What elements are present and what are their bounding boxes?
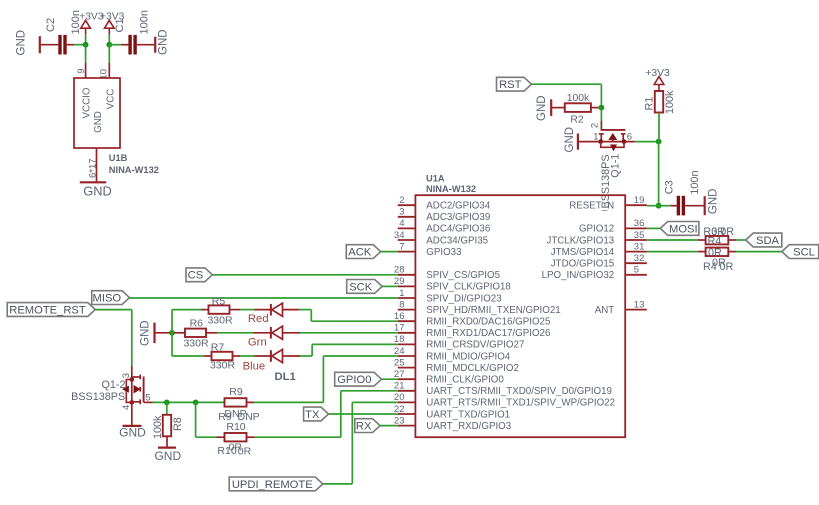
label U1A [426, 174, 445, 184]
svg-text:VCCIO: VCCIO [82, 87, 93, 118]
svg-text:ADC3/GPIO39: ADC3/GPIO39 [426, 212, 490, 223]
resistor R9 [218, 386, 259, 423]
wire [728, 239, 745, 241]
wire [283, 332, 398, 334]
pin 32 JTDO/GPIO15 [551, 253, 647, 270]
pin 21 UART_CTS/RMII_TXD0/SPIV_D0/GPIO19 [394, 381, 612, 398]
svg-text:JTMS/GPIO14: JTMS/GPIO14 [551, 247, 615, 258]
label Q1-2 [101, 379, 125, 391]
ground near DL1 [140, 320, 155, 346]
wire [41, 44, 59, 46]
led DL1 green [271, 326, 283, 339]
wire [685, 205, 704, 207]
pin 9 label [76, 69, 87, 74]
svg-text:RMII_CRSDV/GPIO27: RMII_CRSDV/GPIO27 [426, 340, 524, 351]
svg-text:C2: C2 [45, 18, 57, 32]
svg-text:Q1-1: Q1-1 [609, 154, 621, 178]
svg-text:C1: C1 [114, 18, 126, 32]
svg-text:JTDO/GPIO15: JTDO/GPIO15 [551, 259, 615, 270]
svg-text:32: 32 [634, 253, 645, 264]
wire [108, 34, 110, 45]
pin 16 RMII_RXD0/DAC16/GPIO25 [394, 311, 551, 328]
svg-text:R6: R6 [190, 317, 204, 329]
wire [206, 332, 271, 334]
wire [172, 355, 212, 357]
svg-text:5: 5 [634, 265, 639, 276]
pin 10 label [99, 69, 110, 80]
svg-text:RST: RST [499, 79, 522, 91]
ground below R8 [154, 448, 181, 464]
svg-text:UART_TXD/GPIO1: UART_TXD/GPIO1 [426, 409, 510, 420]
svg-text:4: 4 [399, 218, 404, 229]
svg-text:BSS138PS: BSS138PS [71, 391, 125, 403]
pin 22 UART_TXD/GPIO1 [394, 404, 510, 421]
label U1B [109, 153, 128, 163]
wire [85, 45, 87, 78]
resistor R8 [152, 415, 184, 439]
svg-text:GND: GND [564, 127, 576, 153]
svg-text:R7: R7 [211, 341, 225, 353]
svg-text:0R: 0R [720, 226, 734, 238]
pin 36 GPIO12 [579, 218, 647, 235]
wire [109, 44, 128, 46]
resistor R6 [183, 317, 209, 349]
wire [144, 401, 153, 403]
svg-text:SPIV_DI/GPIO23: SPIV_DI/GPIO23 [426, 293, 501, 304]
svg-text:R5: R5 [212, 296, 226, 308]
wire [166, 436, 168, 447]
svg-text:6: 6 [627, 131, 632, 142]
ground below Q1-2 [119, 425, 146, 439]
svg-text:1: 1 [593, 131, 598, 142]
svg-text:R10: R10 [226, 421, 245, 433]
net flag ACK [346, 245, 380, 259]
svg-text:GND: GND [140, 320, 152, 346]
ground near C1 [155, 29, 169, 55]
svg-text:330R: 330R [183, 337, 209, 349]
resistor R3 [703, 226, 734, 248]
svg-text:Grn: Grn [248, 337, 267, 349]
svg-text:25: 25 [394, 357, 405, 368]
net flag GPIO0 [335, 372, 382, 386]
wire [532, 84, 602, 107]
svg-text:Q1-2: Q1-2 [101, 379, 125, 391]
resistor R7 [210, 341, 236, 371]
resistor R4 [703, 247, 734, 273]
svg-text:+3V3: +3V3 [645, 68, 670, 79]
junction [164, 400, 170, 406]
wire [254, 356, 398, 402]
svg-text:RMII_RXD0/DAC16/GPIO25: RMII_RXD0/DAC16/GPIO25 [426, 317, 551, 328]
pin 25 RMII_MDCLK/GPIO2 [394, 357, 519, 374]
svg-text:100k: 100k [152, 415, 164, 439]
wire [635, 141, 658, 143]
svg-text:JTCLK/GPIO13: JTCLK/GPIO13 [546, 235, 614, 246]
resistor R10 [217, 421, 251, 458]
svg-text:GPIO33: GPIO33 [426, 247, 461, 258]
svg-text:GND: GND [93, 111, 104, 133]
svg-text:330R: 330R [210, 359, 236, 371]
svg-text:100k: 100k [664, 90, 676, 114]
pin 19 RESET_N [569, 195, 647, 212]
svg-text:MISO: MISO [93, 293, 122, 305]
svg-text:13: 13 [634, 299, 645, 310]
pin 7 GPIO33 [398, 241, 462, 258]
label BSS138PS (Q1-2) [71, 391, 125, 403]
svg-text:100n: 100n [139, 10, 151, 34]
ic U1A outline [415, 195, 625, 437]
pin 6*17 label [88, 158, 99, 178]
net flag SCK [347, 280, 383, 294]
svg-text:R4: R4 [708, 236, 722, 248]
svg-text:GND: GND [83, 183, 111, 198]
net flag MOSI [660, 222, 699, 236]
svg-text:R8: R8 [172, 417, 184, 431]
svg-text:100k: 100k [567, 93, 590, 104]
pin 8 SPIV_HD/RMII_TXEN/GPIO21 [398, 299, 561, 316]
supply +3V3 (R1) [645, 68, 670, 91]
svg-text:GND: GND [154, 449, 181, 463]
wire [172, 310, 209, 356]
svg-text:100n: 100n [689, 170, 701, 194]
wire [647, 239, 706, 241]
svg-text:35: 35 [634, 230, 645, 241]
svg-text:3: 3 [399, 207, 404, 218]
wire [67, 44, 86, 46]
led DL1 blue [271, 349, 283, 362]
pin 1 SPIV_DI/GPIO23 [398, 288, 502, 305]
ic U1B power block [74, 78, 120, 148]
label 100n of C2 [70, 10, 82, 34]
svg-text:DL1: DL1 [275, 371, 296, 383]
svg-text:R9: R9 [229, 386, 243, 398]
junction [169, 330, 175, 336]
svg-text:ADC2/GPIO34: ADC2/GPIO34 [426, 201, 491, 212]
wire [382, 378, 398, 380]
pin 20 UART_RTS/RMII_TXD1/SPIV_WP/GPIO22 [394, 392, 615, 409]
pin GND of U1B [96, 148, 98, 182]
transistor Q1-2 [121, 373, 151, 410]
wire [647, 251, 706, 253]
net flag SCL [782, 245, 819, 259]
wire [658, 113, 660, 206]
svg-text:SCK: SCK [349, 281, 373, 293]
junction [656, 139, 662, 145]
ground near C3 [705, 189, 720, 216]
svg-text:UART_RTS/RMII_TXD1/SPIV_WP/GPI: UART_RTS/RMII_TXD1/SPIV_WP/GPIO22 [426, 398, 615, 409]
wire [728, 251, 782, 253]
svg-text:9: 9 [76, 69, 87, 74]
net flag UPDI_REMOTE [229, 477, 323, 491]
svg-text:Red: Red [248, 313, 269, 325]
svg-text:GND: GND [536, 95, 548, 121]
svg-text:RX: RX [356, 421, 372, 433]
svg-text:VCC: VCC [106, 89, 117, 110]
svg-text:MOSI: MOSI [669, 223, 698, 235]
wire [247, 401, 255, 403]
wire [552, 107, 565, 109]
wire [283, 344, 398, 356]
svg-text:0R: 0R [238, 446, 252, 458]
net flag TX [304, 407, 329, 421]
wire [600, 108, 602, 131]
svg-text:36: 36 [634, 218, 645, 229]
wire [381, 251, 398, 253]
label Blue [243, 361, 266, 373]
label Red [248, 313, 269, 325]
wire [131, 405, 133, 426]
svg-text:LPO_IN/GPIO32: LPO_IN/GPIO32 [542, 270, 615, 281]
wire [647, 205, 678, 207]
wire [95, 310, 132, 366]
pin 28 SPIV_CS/GPIO5 [394, 265, 501, 282]
svg-text:8: 8 [399, 299, 404, 310]
net flag RST [497, 77, 532, 91]
svg-text:GND: GND [158, 29, 170, 55]
svg-text:SPIV_HD/RMII_TXEN/GPIO21: SPIV_HD/RMII_TXEN/GPIO21 [426, 305, 560, 316]
supply +3V3 (C2) [79, 11, 104, 34]
svg-text:1: 1 [399, 288, 404, 299]
svg-text:RMII_CLK/GPIO0: RMII_CLK/GPIO0 [426, 375, 504, 386]
svg-text:RMII_MDIO/GPIO4: RMII_MDIO/GPIO4 [426, 351, 511, 362]
wire [85, 34, 87, 45]
wire [108, 45, 110, 78]
net flag CS [186, 268, 212, 282]
wire [166, 402, 168, 414]
junction [599, 105, 605, 111]
svg-text:34: 34 [394, 230, 405, 241]
svg-text:RMII_RXD1/DAC17/GPIO26: RMII_RXD1/DAC17/GPIO26 [426, 328, 550, 339]
svg-text:SCL: SCL [793, 247, 815, 259]
label Grn [248, 337, 267, 349]
svg-text:Blue: Blue [243, 361, 266, 373]
wire [131, 366, 133, 378]
svg-text:GPIO0: GPIO0 [337, 374, 371, 386]
svg-text:TX: TX [305, 409, 320, 421]
pin 27 RMII_CLK/GPIO0 [394, 369, 504, 386]
supply +3V3 (C1) [100, 11, 125, 34]
svg-text:2: 2 [590, 123, 601, 128]
label NINA-W132 (U1B) [109, 165, 159, 175]
svg-text:NINA-W132: NINA-W132 [109, 165, 159, 175]
pin 23 UART_RXD/GPIO3 [394, 415, 511, 432]
transistor Q1-1 [579, 130, 635, 151]
pin 17 RMII_RXD1/DAC17/GPIO26 [394, 323, 550, 340]
svg-text:SPIV_CS/GPIO5: SPIV_CS/GPIO5 [426, 270, 500, 281]
pin 2 label (Q1-1) [590, 123, 601, 128]
wire [172, 332, 185, 334]
svg-text:6*17: 6*17 [88, 158, 99, 178]
net flag SDA [746, 233, 782, 247]
label DL1 [275, 371, 296, 383]
label Q1-1 [609, 154, 621, 178]
wire [382, 285, 398, 287]
svg-text:ACK: ACK [348, 247, 372, 259]
wire [153, 401, 225, 403]
svg-text:U1A: U1A [426, 174, 445, 184]
svg-text:SPIV_CLK/GPIO18: SPIV_CLK/GPIO18 [426, 282, 511, 293]
svg-text:GND: GND [119, 425, 146, 439]
wire [212, 274, 397, 276]
svg-text:R10: R10 [217, 445, 236, 457]
pin 13 ANT [595, 299, 647, 316]
svg-text:GND: GND [16, 30, 28, 56]
capacitor C3 [663, 180, 685, 215]
svg-text:3: 3 [121, 373, 132, 378]
svg-text:330R: 330R [207, 314, 233, 326]
svg-text:R1: R1 [643, 97, 655, 111]
svg-text:RMII_MDCLK/GPIO2: RMII_MDCLK/GPIO2 [426, 363, 519, 374]
svg-text:UART_CTS/RMII_TXD0/SPIV_D0/GPI: UART_CTS/RMII_TXD0/SPIV_D0/GPIO19 [426, 386, 612, 397]
resistor R2 [565, 93, 591, 126]
pin 29 SPIV_CLK/GPIO18 [394, 276, 511, 293]
ground near C2 [16, 30, 40, 56]
pin 31 JTMS/GPIO14 [551, 241, 647, 258]
svg-text:7: 7 [399, 241, 404, 252]
svg-text:R2: R2 [570, 114, 584, 125]
pin 3 ADC3/GPIO39 [398, 207, 490, 224]
svg-text:0R: 0R [720, 261, 734, 273]
wire [130, 297, 398, 299]
svg-text:ADC34/GPI35: ADC34/GPI35 [426, 235, 488, 246]
label 100n of C3 [689, 170, 701, 194]
pin 35 JTCLK/GPIO13 [546, 230, 646, 247]
svg-text:UART_RXD/GPIO3: UART_RXD/GPIO3 [426, 421, 511, 432]
pin 4 ADC4/GPIO36 [398, 218, 490, 235]
wire [196, 402, 225, 437]
pin 24 RMII_MDIO/GPIO4 [394, 346, 511, 363]
capacitor C2 [45, 18, 67, 55]
svg-text:ANT: ANT [595, 305, 615, 316]
junction [106, 42, 112, 48]
wire [156, 332, 173, 334]
svg-text:NINA-W132: NINA-W132 [426, 184, 476, 194]
led DL1 red [271, 303, 283, 316]
ground below U1B [80, 182, 112, 198]
svg-text:ADC4/GPIO36: ADC4/GPIO36 [426, 224, 490, 235]
junction [83, 42, 89, 48]
net flag REMOTE_RST [7, 303, 95, 317]
junction [656, 203, 662, 209]
wire [247, 391, 398, 437]
wire [323, 402, 398, 484]
wire [137, 44, 154, 46]
net flag RX [355, 419, 380, 433]
svg-text:U1B: U1B [109, 153, 128, 163]
pin 5 LPO_IN/GPIO32 [542, 265, 647, 282]
svg-text:REMOTE_RST: REMOTE_RST [9, 304, 86, 316]
label 100n of C1 [139, 10, 151, 34]
wire [380, 425, 398, 427]
net flag MISO [92, 291, 130, 305]
capacitor C1 [114, 18, 137, 54]
label NINA-W132 (U1A) [426, 184, 476, 194]
resistor R1 [643, 90, 676, 114]
ground near R2 [536, 95, 551, 121]
junction [193, 400, 199, 406]
svg-text:R4: R4 [703, 261, 717, 273]
svg-text:UPDI_REMOTE: UPDI_REMOTE [232, 479, 313, 491]
wire [233, 355, 271, 357]
svg-text:GPIO12: GPIO12 [579, 224, 614, 235]
pin 34 ADC34/GPI35 [394, 230, 489, 247]
svg-text:SDA: SDA [756, 235, 780, 247]
wire [329, 413, 398, 415]
ground near Q1-1 [564, 127, 578, 153]
svg-text:GND: GND [707, 189, 719, 215]
pin 2 ADC2/GPIO34 [398, 195, 491, 212]
svg-text:2: 2 [399, 195, 404, 206]
svg-text:C3: C3 [663, 180, 675, 194]
wire [230, 309, 271, 311]
svg-text:19: 19 [634, 195, 645, 206]
label BSS138PS (Q1-1) [600, 154, 612, 208]
wire [647, 227, 660, 229]
resistor R5 [207, 296, 233, 327]
wire [591, 107, 602, 109]
svg-text:31: 31 [634, 241, 645, 252]
svg-text:4: 4 [121, 405, 132, 410]
wire [283, 310, 398, 322]
pin 18 RMII_CRSDV/GPIO27 [394, 334, 524, 351]
svg-text:CS: CS [188, 270, 204, 282]
svg-text:RESET_N: RESET_N [569, 201, 614, 212]
